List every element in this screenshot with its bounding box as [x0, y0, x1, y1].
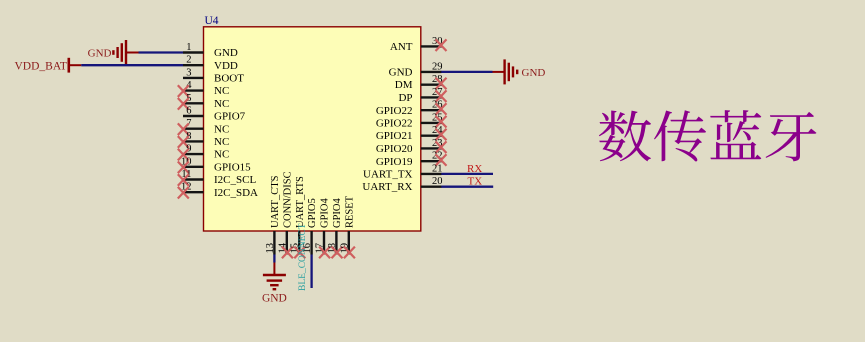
- wire UART_RX / net TX: [441, 176, 493, 188]
- svg-text:GPIO4: GPIO4: [332, 197, 343, 228]
- wire pin29 to GND: [441, 71, 504, 73]
- svg-text:DP: DP: [398, 92, 412, 104]
- svg-text:U4: U4: [205, 15, 219, 27]
- pin 3 BOOT: [183, 67, 244, 84]
- pin 10 GPIO15: [178, 156, 251, 173]
- pin 22 GPIO19: [376, 151, 447, 168]
- svg-text:UART_RX: UART_RX: [362, 181, 412, 193]
- svg-text:VDD_BAT: VDD_BAT: [15, 61, 67, 73]
- svg-text:NC: NC: [214, 123, 229, 135]
- pin 15 UART_RTS: [290, 176, 306, 258]
- port VDD_BAT: [15, 58, 82, 73]
- pin 2 VDD: [183, 55, 238, 72]
- designator U4: [205, 15, 219, 27]
- svg-text:BLE_CONNECT: BLE_CONNECT: [298, 223, 308, 291]
- pin 14 CONN/DISC: [277, 171, 293, 258]
- pin 30 ANT: [390, 36, 447, 53]
- pin 16 GPIO5: [302, 198, 318, 254]
- pin 5 NC: [178, 93, 229, 110]
- wire pin1 to GND: [126, 52, 183, 54]
- pin 7 NC: [178, 118, 229, 135]
- pin 17 GPIO4: [315, 197, 331, 258]
- pin 27 DP: [398, 87, 446, 104]
- svg-text:GPIO15: GPIO15: [214, 161, 251, 173]
- svg-text:I2C_SDA: I2C_SDA: [214, 187, 258, 199]
- svg-text:UART_TX: UART_TX: [363, 169, 413, 181]
- svg-text:GND: GND: [214, 47, 238, 59]
- pin 29 GND: [389, 61, 443, 78]
- svg-text:2: 2: [186, 55, 191, 66]
- svg-text:UART_CTS: UART_CTS: [270, 175, 281, 228]
- IC U4 body: [204, 27, 421, 231]
- earth ground GND (bottom): [262, 263, 287, 305]
- svg-text:GPIO20: GPIO20: [376, 143, 413, 155]
- svg-text:NC: NC: [214, 85, 229, 97]
- pin 24 GPIO21: [376, 125, 447, 142]
- svg-text:GPIO4: GPIO4: [320, 197, 331, 228]
- svg-text:GPIO22: GPIO22: [376, 105, 413, 117]
- svg-text:TX: TX: [468, 176, 483, 188]
- svg-text:21: 21: [432, 163, 443, 174]
- pin 11 I2C_SCL: [178, 169, 257, 186]
- pin 23 GPIO20: [376, 138, 447, 155]
- title text 数传蓝牙: [599, 110, 817, 161]
- svg-text:GND: GND: [389, 67, 413, 79]
- wire pin16 BLE_CONNECT: [310, 255, 312, 289]
- pin 19 RESET: [339, 195, 355, 258]
- svg-text:NC: NC: [214, 98, 229, 110]
- svg-text:RX: RX: [467, 163, 482, 175]
- pin 9 NC: [178, 144, 229, 161]
- pin 18 GPIO4: [327, 197, 343, 258]
- svg-text:DM: DM: [395, 79, 413, 91]
- svg-text:VDD: VDD: [214, 60, 238, 72]
- svg-text:6: 6: [186, 106, 191, 117]
- net label BLE_CONNECT: [298, 223, 308, 291]
- svg-text:GPIO22: GPIO22: [376, 118, 413, 130]
- svg-text:ANT: ANT: [390, 41, 413, 53]
- pin 26 GPIO22: [376, 100, 447, 117]
- power ground GND (right): [505, 59, 546, 84]
- svg-text:GND: GND: [262, 293, 287, 305]
- pin 28 DM: [395, 74, 447, 91]
- svg-text:GPIO7: GPIO7: [214, 111, 246, 123]
- pin 13 UART_CTS: [265, 175, 281, 254]
- power ground GND (left): [88, 40, 126, 65]
- svg-text:CONN/DISC: CONN/DISC: [282, 171, 293, 228]
- pin 4 NC: [178, 80, 229, 97]
- svg-text:NC: NC: [214, 149, 229, 161]
- wire pin13 to GND: [273, 255, 275, 263]
- svg-text:29: 29: [432, 61, 443, 72]
- pin 25 GPIO22: [376, 112, 447, 129]
- wire UART_TX / net RX: [441, 163, 493, 175]
- svg-text:GPIO21: GPIO21: [376, 130, 413, 142]
- svg-text:NC: NC: [214, 136, 229, 148]
- svg-text:BOOT: BOOT: [214, 73, 244, 85]
- pin 8 NC: [178, 131, 229, 148]
- pin 21 UART_TX: [363, 163, 442, 180]
- pin 1 GND: [183, 42, 238, 59]
- pin 20 UART_RX: [362, 176, 442, 193]
- svg-text:RESET: RESET: [344, 195, 355, 228]
- svg-text:GPIO19: GPIO19: [376, 156, 413, 168]
- svg-text:GND: GND: [88, 48, 112, 60]
- svg-text:GPIO5: GPIO5: [307, 198, 318, 228]
- svg-text:20: 20: [432, 176, 443, 187]
- svg-text:GND: GND: [522, 67, 546, 79]
- svg-text:1: 1: [186, 42, 191, 53]
- pin 6 GPIO7: [183, 106, 246, 123]
- svg-text:13: 13: [265, 243, 276, 254]
- svg-text:3: 3: [186, 67, 191, 78]
- pin 12 I2C_SDA: [178, 182, 258, 199]
- wire VDD_BAT to pin2: [81, 64, 183, 66]
- svg-text:UART_RTS: UART_RTS: [295, 176, 306, 228]
- svg-text:I2C_SCL: I2C_SCL: [214, 174, 256, 186]
